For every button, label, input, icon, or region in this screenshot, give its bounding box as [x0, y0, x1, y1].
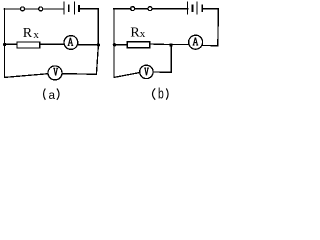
resistor Rx box (b) — [127, 42, 150, 48]
switch S contact circle 2 (a) — [39, 7, 43, 11]
wire top segment 3 (a) — [80, 8, 98, 10]
wire left rail (a) — [4, 9, 6, 78]
ammeter A1 circle (a) — [64, 36, 78, 50]
wire top segment 2 (b) — [152, 8, 188, 10]
wire voltmeter drop (b) — [170, 45, 172, 72]
wire left rail (b) — [113, 9, 115, 78]
wire middle row center (a) — [40, 43, 64, 45]
wire middle row center (b) — [150, 43, 171, 46]
wire middle row right (b) — [173, 43, 189, 45]
battery cell 1 short plate (b) — [192, 6, 194, 11]
wire top segment 1 (a) — [4, 8, 21, 10]
svg-text:x: x — [140, 28, 146, 40]
wire right rail (a) — [96, 9, 98, 75]
battery cell 1 long plate (a) — [63, 2, 65, 14]
svg-text:x: x — [33, 29, 39, 41]
voltmeter V1 circle (a) — [48, 66, 62, 80]
battery cell 1 long plate (b) — [187, 2, 189, 14]
switch S contact circle 1 (a) — [21, 7, 25, 11]
battery cell 1 short plate (a) — [68, 6, 70, 11]
wire switch bar (a) — [25, 8, 39, 10]
wire bottom right (b) — [153, 71, 171, 73]
label (a) — [44, 89, 60, 103]
wire top segment 3 (b) — [203, 8, 218, 10]
node junction dot middle (b) — [169, 43, 172, 46]
battery cell 2 long plate (b) — [196, 2, 198, 14]
switch S contact circle 1 (b) — [131, 7, 135, 11]
label Rx (b) — [130, 25, 145, 40]
label (b) — [153, 86, 169, 103]
label ammeter A (a) glyph — [68, 38, 74, 46]
label ammeter A (b) glyph — [193, 38, 199, 46]
wire bottom left (a) — [5, 74, 49, 78]
svg-text:R: R — [23, 26, 33, 41]
resistor Rx box (a) — [17, 42, 40, 48]
wire right rail (b) — [217, 9, 220, 46]
svg-text:b: b — [158, 86, 164, 103]
switch S contact circle 2 (b) — [148, 7, 152, 11]
svg-text:a: a — [48, 89, 55, 103]
label voltmeter V (b) glyph — [144, 68, 149, 75]
battery cell 2 short plate (b) — [201, 6, 203, 11]
label Rx (a) — [23, 26, 40, 41]
wire middle row right (a) — [78, 44, 99, 46]
wire top segment 2 (a) — [43, 8, 64, 10]
wire middle row left (b) — [114, 44, 127, 46]
wire ammeter to right rail (b) — [203, 44, 218, 46]
wire middle row left (a) — [5, 43, 18, 45]
wire bottom right (a) — [62, 73, 96, 76]
wire top segment 1 (b) — [114, 8, 131, 10]
wire bottom left (b) — [114, 73, 140, 78]
battery cell 2 long plate (a) — [74, 2, 76, 14]
wire switch bar (b) — [135, 8, 148, 10]
node junction dot left rail (a) — [3, 43, 6, 46]
label voltmeter V (a) glyph — [53, 68, 58, 75]
node junction dot right rail (a) — [97, 43, 100, 46]
node junction dot left rail (b) — [113, 43, 116, 46]
ammeter A2 circle (b) — [189, 35, 203, 49]
battery cell 2 short plate (a) — [78, 6, 80, 11]
voltmeter V2 circle (b) — [140, 65, 153, 78]
